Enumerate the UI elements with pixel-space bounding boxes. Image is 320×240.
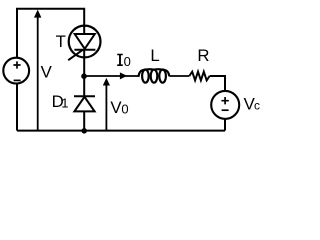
source E left [3,58,29,84]
arrow V0 [103,78,110,131]
svg-text:L: L [150,46,159,65]
svg-text:0: 0 [121,101,128,116]
wire Vc to bottom rail [224,119,226,131]
svg-text:0: 0 [124,54,131,69]
label I0 [117,55,123,66]
thyristor T [68,26,100,61]
wire top rail [17,9,84,58]
wire resistor to Vc branch [210,76,225,91]
svg-text:1: 1 [61,96,68,111]
diode D1 [74,76,95,131]
svg-text:T: T [56,32,66,51]
wire mid rail [84,75,139,77]
wire bottom rail [17,130,225,132]
resistor R [189,72,209,81]
svg-text:c: c [254,99,260,113]
wire inductor to resistor [169,75,189,77]
node mid junction [81,73,87,79]
svg-text:R: R [197,46,209,65]
source Vc [211,91,239,119]
wire thyristor to mid node [83,50,85,76]
svg-text:V: V [41,63,53,82]
arrow I0 head [120,72,127,79]
node bottom junction [81,128,87,134]
wire left bottom [16,84,18,131]
arrow V [34,10,41,131]
inductor L [139,69,170,83]
